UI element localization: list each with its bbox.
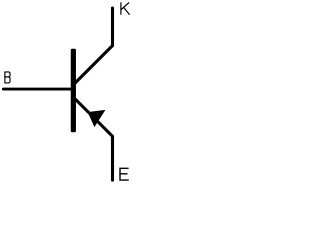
label K (collector) xyxy=(121,3,129,14)
wire base horizontal xyxy=(3,88,73,91)
label E (emitter) xyxy=(120,168,128,180)
label B (base) xyxy=(4,72,10,83)
emitter arrow (PNP, pointing to base) xyxy=(88,110,104,126)
wire collector (to K) xyxy=(74,8,113,85)
base bar of transistor Q1 xyxy=(71,49,76,132)
wire emitter (to E) xyxy=(74,97,113,180)
